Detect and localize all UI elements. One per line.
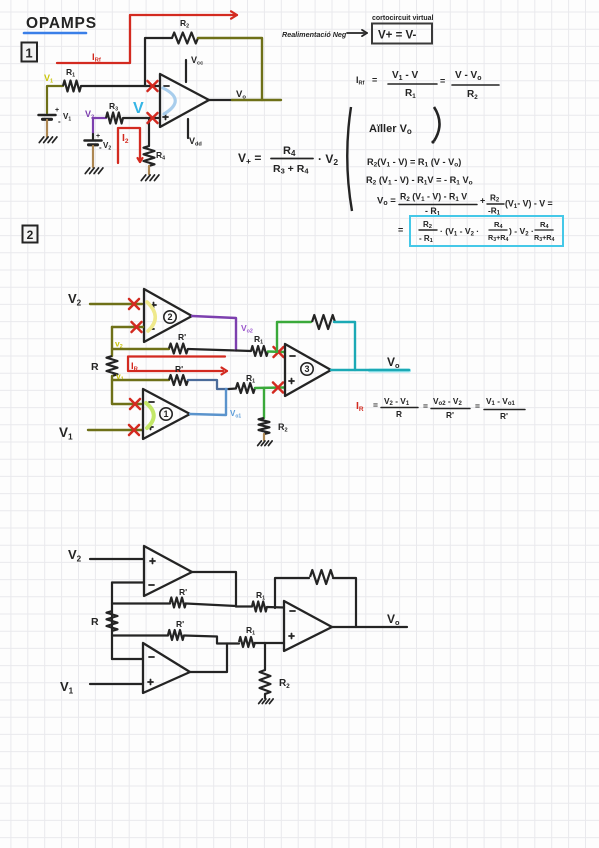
wire rail to R' upper (olive)	[112, 348, 169, 350]
wire U2 minus to left rail	[112, 326, 143, 328]
feedback wire left (c3)	[275, 578, 309, 608]
wire V2 input	[90, 303, 142, 305]
svg-text:V: V	[133, 100, 144, 117]
wire node to R1 upper	[236, 349, 251, 352]
svg-text:=: =	[372, 75, 377, 85]
wire R1 to op-amp minus	[81, 85, 159, 87]
U3 plus sign	[148, 426, 153, 428]
section box 1	[22, 43, 38, 62]
U3 minus sign	[149, 401, 154, 403]
resistor R4	[144, 146, 155, 166]
resistor R (c3)	[107, 611, 118, 631]
op-amp C	[284, 601, 332, 651]
wire B output	[190, 644, 227, 673]
op-amp U1	[160, 74, 209, 127]
op-amp U4	[285, 344, 331, 396]
svg-text:2: 2	[167, 312, 172, 322]
red current loop IR	[128, 357, 225, 372]
wire V2 node purple	[93, 118, 106, 134]
svg-text:) - V2 ·: ) - V2 ·	[509, 226, 534, 237]
svg-text:=: =	[423, 401, 428, 411]
svg-text:R2(V1 - V) = R1 (V - Vo): R2(V1 - V) = R1 (V - Vo)	[367, 157, 461, 169]
svg-text:V+ = V-: V+ = V-	[378, 30, 417, 42]
svg-text:V1 - V: V1 - V	[392, 70, 418, 82]
svg-text:R3 + R4: R3 + R4	[273, 163, 309, 176]
svg-text:R': R'	[178, 332, 186, 342]
svg-text:3: 3	[304, 364, 309, 374]
op-amp A	[144, 546, 192, 596]
wire U1 output	[209, 99, 232, 101]
x-mark U2 minus input	[132, 322, 142, 332]
wire to R2 (c3)	[264, 643, 266, 670]
U2 input arc (pale yellow)	[147, 302, 155, 331]
svg-text:R': R'	[175, 364, 183, 374]
op-amp U3	[143, 389, 190, 439]
wire rowA to node	[186, 604, 236, 607]
resistor R1 upper (c3)	[252, 602, 267, 612]
left rail upper (olive)	[111, 327, 113, 356]
x-mark minus input	[148, 81, 158, 91]
svg-text:+: +	[55, 107, 59, 114]
resistor R1 lower	[236, 383, 255, 393]
svg-text:· (V1 - V2 ·: · (V1 - V2 ·	[440, 226, 479, 237]
U4 number 3	[301, 363, 313, 375]
wire R2 to output (olive)	[198, 38, 262, 100]
wire battery V2 to ground	[92, 146, 94, 167]
svg-text:Aïller Vo: Aïller Vo	[369, 123, 412, 136]
feedback wire right (c3)	[333, 578, 356, 627]
ground R2 (circuit2)	[258, 441, 262, 446]
svg-text:R': R'	[500, 411, 508, 421]
wire rail to row A	[112, 602, 170, 604]
wire rail to row B	[112, 634, 168, 636]
section box 2	[23, 226, 38, 243]
svg-text:R3+R4: R3+R4	[488, 233, 508, 243]
x-mark U4 plus input	[273, 383, 283, 393]
resistor R (vertical)	[107, 356, 118, 376]
result box (cyan)	[410, 216, 563, 246]
feedback resistor (c3)	[310, 570, 333, 584]
svg-text:=: =	[475, 401, 480, 411]
resistor R2	[172, 33, 198, 44]
svg-text:cortocircuit virtual: cortocircuit virtual	[372, 15, 434, 22]
ground battery V2	[85, 168, 89, 174]
wire R' lower to junction (blue)	[188, 380, 229, 389]
resistor R' lower (c3)	[168, 630, 184, 640]
Vcc supply line	[185, 60, 187, 82]
B plus sign	[148, 681, 153, 683]
red current path IRf	[57, 15, 234, 63]
box virtual short	[372, 24, 432, 44]
wire V1 input (c3)	[90, 683, 143, 685]
wire battery V1 to ground	[46, 120, 48, 137]
C plus sign	[289, 635, 294, 637]
left rail lower (olive)	[112, 376, 141, 404]
left rail (c3)	[111, 583, 113, 660]
resistor R' upper	[169, 344, 188, 354]
svg-text:R: R	[91, 361, 99, 373]
svg-text:=: =	[373, 400, 378, 410]
U2 number 2	[164, 311, 176, 323]
svg-text:1: 1	[163, 409, 168, 419]
svg-text:R: R	[396, 409, 402, 419]
resistor R1 lower (c3)	[239, 637, 255, 647]
feedback resistor (circuit2)	[312, 315, 335, 329]
wire rail to B minus	[112, 658, 143, 660]
resistor R3	[106, 113, 123, 124]
wire C output	[332, 626, 407, 628]
U2 plus sign	[151, 304, 156, 306]
title underline	[24, 32, 86, 35]
A plus sign	[150, 560, 155, 562]
svg-text:(V1- V) - V =: (V1- V) - V =	[505, 199, 553, 210]
wire V1 input	[88, 429, 142, 431]
U3 input arc (light green)	[146, 403, 154, 428]
wire R1 to U4 minus (green)	[268, 350, 284, 353]
wire node to R1 (c3)	[236, 605, 252, 607]
feedback wire to output (teal)	[334, 322, 355, 370]
bracket right	[434, 107, 440, 141]
wire rowB step	[184, 636, 239, 644]
resistor R2 (circuit2)	[259, 418, 270, 434]
wire V2 input (c3)	[90, 558, 143, 560]
wire R1 to C plus	[255, 642, 284, 644]
big bracket left	[347, 107, 352, 211]
wire V1 node to R1	[47, 86, 63, 113]
svg-text:Vo2 - V2: Vo2 - V2	[433, 396, 462, 407]
wire A minus to rail	[112, 581, 144, 583]
U2 minus sign	[149, 328, 154, 330]
svg-text:R3+R4: R3+R4	[534, 233, 554, 243]
wire to R2 (green)	[263, 388, 265, 418]
svg-text:R: R	[91, 616, 99, 628]
U1 minus sign	[164, 85, 169, 87]
resistor R1 upper	[251, 346, 268, 356]
C minus sign	[290, 610, 295, 612]
resistor R1	[63, 81, 81, 92]
svg-text:Realimentació Neg: Realimentació Neg	[282, 30, 347, 39]
svg-text:=: =	[398, 225, 403, 235]
feedback wire up (green)	[277, 322, 311, 352]
battery V1	[39, 114, 56, 117]
svg-text:-: -	[99, 143, 102, 152]
U4 minus sign	[290, 355, 295, 357]
x-mark U4 minus input	[274, 347, 284, 357]
svg-text:+: +	[96, 133, 100, 140]
red current loop I2	[118, 128, 140, 163]
ground R4	[141, 175, 145, 181]
wire R2 stub (c3)	[264, 694, 266, 698]
battery V2	[85, 139, 102, 142]
wire V2 node lower	[92, 134, 94, 139]
svg-text:1: 1	[25, 46, 32, 61]
ground battery V1	[39, 137, 43, 143]
op-amp B	[143, 643, 190, 693]
svg-text:OPAMPS: OPAMPS	[26, 15, 97, 32]
wire R2 to ground (tan)	[263, 434, 265, 440]
wire U1 output olive	[232, 99, 281, 101]
wire R' to purple node	[188, 349, 236, 351]
wire plus node to R4	[148, 118, 150, 146]
svg-text:R': R'	[176, 619, 184, 629]
A minus sign	[149, 584, 154, 586]
svg-text:R': R'	[446, 410, 454, 420]
wire U3 output (blue)	[190, 389, 226, 415]
x-mark U3 minus input	[130, 399, 140, 409]
virtual short arc (pale blue)	[163, 88, 175, 114]
wire rail to R' lower (olive)	[112, 379, 169, 381]
wire U2 output (purple)	[192, 316, 236, 351]
wire A output	[192, 572, 236, 607]
svg-text:2: 2	[27, 228, 34, 242]
op-amp U2	[144, 289, 192, 342]
svg-text:=: =	[440, 76, 445, 86]
resistor R' lower	[169, 375, 188, 385]
output highlight (light cyan)	[370, 369, 409, 373]
x-mark U3 plus input	[129, 425, 139, 435]
svg-text:R': R'	[179, 587, 187, 597]
wire R4 to ground	[148, 166, 150, 174]
Vdd supply line	[187, 119, 189, 138]
wire R1 to U4 plus (green)	[255, 386, 284, 389]
ground R2 (c3)	[259, 699, 263, 704]
B minus sign	[149, 656, 154, 658]
x-mark plus input	[148, 113, 158, 123]
svg-text:-: -	[58, 117, 61, 126]
wire U4 output (teal)	[331, 369, 409, 372]
wire R3 to op-amp plus	[123, 117, 159, 119]
wire R1 to C minus	[267, 606, 284, 609]
U4 plus sign	[289, 380, 294, 382]
U1 plus sign	[163, 116, 168, 118]
arrow to box	[347, 32, 364, 34]
resistor R'' (c3)	[170, 598, 186, 608]
wire R1 lower junction	[229, 387, 236, 390]
svg-text:+: +	[480, 196, 485, 206]
wire minus node up to R2	[145, 38, 172, 86]
x-mark U2 plus input	[129, 299, 139, 309]
U3 number 1	[160, 408, 172, 420]
resistor R2 (c3)	[260, 670, 271, 694]
